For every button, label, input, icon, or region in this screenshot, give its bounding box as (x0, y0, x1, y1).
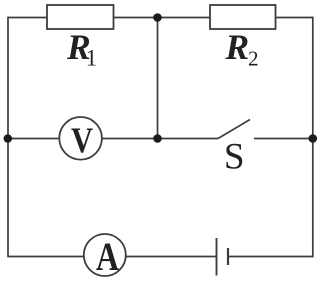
node: left junction (4, 134, 13, 143)
wire: middle from voltmeter to switch pivot (103, 138, 219, 140)
switch S blade (218, 120, 250, 139)
svg-text:A: A (96, 235, 119, 279)
wire: center vertical from top junction to middle junction (157, 18, 159, 139)
wire: middle-left from left node to voltmeter (8, 138, 59, 140)
battery short plate (227, 248, 229, 265)
wire: top-middle segment between R1 and R2 (114, 17, 211, 19)
ammeter A (84, 234, 126, 276)
svg-text:1: 1 (86, 46, 97, 71)
label R2 (224, 27, 249, 67)
wire: middle-right from switch contact to right node (254, 138, 313, 140)
resistor R1 (47, 5, 114, 29)
wire: top-right segment (275, 17, 313, 19)
svg-text:S: S (224, 136, 245, 177)
wire: right side vertical (312, 17, 314, 258)
label S (224, 136, 245, 177)
wire: bottom-left segment (8, 256, 84, 258)
svg-text:V: V (71, 121, 93, 161)
wire: bottom-right segment from battery to corner (228, 256, 313, 258)
label R1 (66, 27, 91, 67)
wire: bottom segment from ammeter to battery (126, 256, 216, 258)
svg-text:R: R (224, 27, 249, 67)
wire: top-left segment (8, 17, 47, 19)
node: right junction (309, 134, 318, 143)
wire: left side vertical (7, 17, 9, 258)
voltmeter V (59, 117, 102, 160)
svg-text:2: 2 (248, 47, 259, 71)
resistor R2 (210, 5, 276, 29)
battery long plate (216, 238, 218, 276)
node: middle junction (153, 134, 162, 143)
node: top junction (153, 13, 162, 22)
